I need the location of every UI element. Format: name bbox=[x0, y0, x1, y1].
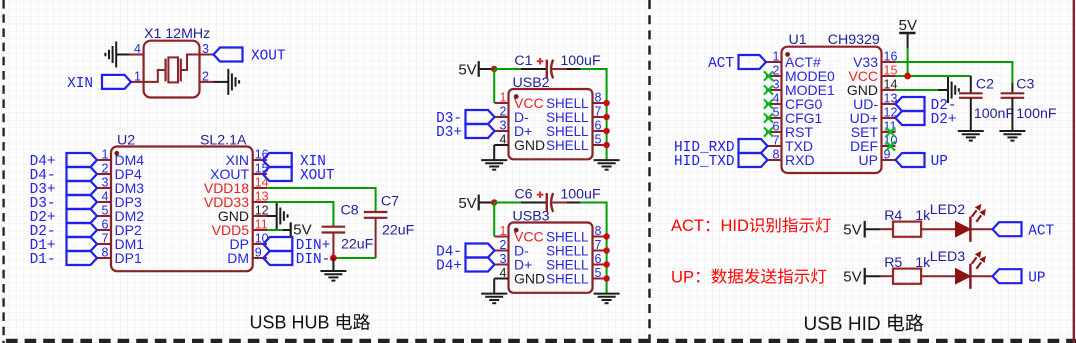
U2 pin 12 GND bbox=[253, 215, 267, 217]
svg-text:8: 8 bbox=[595, 90, 602, 104]
U1 pin 16 V33 bbox=[882, 61, 896, 63]
port ACT at LED2 bbox=[993, 222, 1022, 236]
svg-text:5: 5 bbox=[773, 105, 780, 119]
no-connect X at U1 pin 11 bbox=[886, 127, 895, 136]
wire R5 to LED3 bbox=[921, 275, 955, 277]
U2 pin 9 DM bbox=[253, 257, 267, 259]
svg-text:3: 3 bbox=[102, 175, 109, 189]
port D2- bbox=[896, 97, 925, 111]
port D1- bbox=[67, 251, 98, 265]
svg-text:GND: GND bbox=[514, 271, 545, 287]
no-connect X at U1 pin 4 bbox=[764, 99, 773, 108]
svg-text:SHELL: SHELL bbox=[546, 257, 588, 272]
U2 pin 4 DP3 bbox=[97, 201, 111, 203]
svg-text:HID: HID bbox=[721, 217, 750, 235]
port D3- bbox=[67, 195, 98, 209]
ground below C3 bbox=[999, 130, 1025, 132]
port D4- bbox=[466, 244, 495, 258]
port D3+ bbox=[466, 124, 495, 138]
capacitor C2 bbox=[959, 92, 983, 94]
U1 pin 2 MODE0 bbox=[766, 75, 782, 77]
sheet divider dashed bottom bbox=[6, 339, 1076, 343]
U1 pin 5 CFG1 bbox=[766, 117, 782, 119]
U2 pin 10 DP bbox=[253, 243, 267, 245]
X1 pin 1 bbox=[131, 81, 144, 83]
svg-text:1: 1 bbox=[500, 90, 507, 104]
svg-text:8: 8 bbox=[102, 245, 109, 259]
port D2+ bbox=[896, 111, 925, 125]
capacitor C7 bbox=[375, 218, 377, 258]
svg-text:R4: R4 bbox=[884, 208, 902, 224]
svg-text:5V: 5V bbox=[843, 269, 861, 286]
USB2 pin-1 dot bbox=[514, 94, 519, 99]
svg-text:4: 4 bbox=[773, 91, 780, 105]
USB3 pin 7 SHELL bbox=[593, 250, 607, 252]
no-connect X at U1 pin 10 bbox=[886, 141, 895, 150]
junction VCC 5V bbox=[904, 73, 911, 80]
svg-text:USB3: USB3 bbox=[513, 209, 550, 225]
svg-text:SHELL: SHELL bbox=[546, 110, 588, 125]
X1 pin 4 bbox=[130, 54, 144, 56]
svg-text:7: 7 bbox=[595, 104, 602, 118]
svg-text:2: 2 bbox=[202, 69, 209, 83]
svg-text:6: 6 bbox=[773, 119, 780, 133]
svg-text:D1-: D1- bbox=[30, 252, 56, 268]
svg-text:ACT: ACT bbox=[708, 56, 734, 72]
svg-text:SHELL: SHELL bbox=[546, 243, 588, 258]
U1 pin 12 UD+ bbox=[882, 117, 896, 119]
svg-text:USB HUB: USB HUB bbox=[250, 313, 330, 333]
ground at USB3 shell bbox=[594, 293, 620, 295]
ground at X1 pin 2 bbox=[214, 81, 229, 83]
U1 pin 15 VCC bbox=[882, 75, 896, 77]
svg-text:5V: 5V bbox=[293, 222, 311, 239]
LED LED3 bbox=[956, 269, 971, 284]
U2 pin 8 DP1 bbox=[97, 257, 111, 259]
svg-text:C1: C1 bbox=[514, 53, 532, 69]
capacitor C1 bbox=[521, 68, 547, 70]
svg-text:4: 4 bbox=[102, 189, 109, 203]
svg-text:10: 10 bbox=[255, 231, 269, 245]
USB2 pin 4 GND bbox=[494, 144, 508, 146]
ground below cap rail bbox=[332, 258, 334, 271]
port HID_RXD bbox=[739, 139, 768, 153]
USB2 pin 1 VCC bbox=[495, 102, 509, 104]
svg-text:XOUT: XOUT bbox=[300, 168, 335, 184]
junction SHELL 7 USB2 bbox=[603, 114, 609, 120]
sheet divider dashed middle bbox=[648, 0, 651, 343]
svg-text:14: 14 bbox=[884, 77, 898, 91]
USB2 pin 6 SHELL bbox=[593, 130, 607, 132]
port XIN at crystal bbox=[102, 75, 131, 89]
svg-text:1: 1 bbox=[773, 49, 780, 63]
junction 5V USB3 bbox=[491, 199, 497, 205]
svg-text:5V: 5V bbox=[843, 222, 861, 239]
port D3+ bbox=[67, 181, 98, 195]
power 5V at U2 pin 11 bbox=[267, 229, 283, 231]
junction SHELL 5 USB3 bbox=[603, 275, 609, 281]
port D1+ bbox=[67, 237, 98, 251]
port XOUT at crystal bbox=[214, 48, 243, 62]
junction SHELL 5 USB2 bbox=[603, 142, 609, 148]
svg-text:100nF: 100nF bbox=[1016, 106, 1057, 122]
svg-text:5V: 5V bbox=[458, 62, 476, 79]
port UP at LED3 bbox=[993, 269, 1022, 283]
svg-text:7: 7 bbox=[102, 231, 109, 245]
USB3 pin 1 VCC bbox=[495, 236, 509, 238]
svg-text:6: 6 bbox=[102, 217, 109, 231]
USB2 pin 8 SHELL bbox=[593, 102, 607, 104]
port D2- bbox=[67, 223, 98, 237]
crystal X1 internal symbol bbox=[144, 70, 165, 82]
svg-text:GND: GND bbox=[514, 137, 545, 153]
junction SHELL 6 USB3 bbox=[603, 261, 609, 267]
port XOUT at U2 bbox=[263, 167, 292, 181]
junction at DIN- rail bbox=[330, 255, 337, 262]
USB2 pin 5 SHELL bbox=[593, 144, 607, 146]
U2 pin 13 VDD33 bbox=[253, 201, 267, 203]
svg-text:D2+: D2+ bbox=[931, 112, 957, 128]
ground at USB3 pin 4 bbox=[493, 279, 495, 294]
svg-text:6: 6 bbox=[595, 118, 602, 132]
svg-text:5V: 5V bbox=[458, 195, 476, 212]
USB connector USB2 body bbox=[509, 89, 593, 159]
svg-text:3: 3 bbox=[202, 42, 209, 56]
wire GND pin14 bbox=[896, 89, 939, 91]
junction SHELL 8 USB3 bbox=[603, 233, 609, 239]
U2 pin 15 XOUT bbox=[253, 173, 267, 175]
sheet divider dashed left bbox=[2, 0, 4, 343]
svg-text:X1 12MHz: X1 12MHz bbox=[144, 26, 210, 42]
svg-text:6: 6 bbox=[595, 252, 602, 266]
svg-text:USB HID: USB HID bbox=[804, 314, 881, 335]
svg-text:C6: C6 bbox=[514, 187, 532, 203]
svg-text:5: 5 bbox=[595, 266, 602, 280]
capacitor C8 bbox=[332, 233, 334, 259]
svg-text:UP: UP bbox=[1028, 270, 1045, 286]
svg-text:5: 5 bbox=[102, 203, 109, 217]
svg-text:5V: 5V bbox=[899, 17, 917, 34]
C3 top lead bbox=[1011, 83, 1013, 93]
junction SHELL 8 USB2 bbox=[603, 100, 609, 106]
U2 pin 3 DM3 bbox=[97, 187, 111, 189]
svg-text:C8: C8 bbox=[341, 203, 359, 219]
USB connector USB3 body bbox=[509, 223, 593, 293]
port D4- bbox=[67, 167, 98, 181]
port DIN+ bbox=[263, 237, 292, 251]
svg-text:22uF: 22uF bbox=[341, 236, 374, 252]
svg-text:UP: UP bbox=[671, 267, 694, 286]
port DIN- bbox=[263, 251, 292, 265]
svg-text:ACT: ACT bbox=[1028, 223, 1054, 239]
U1 pin 3 MODE1 bbox=[766, 89, 782, 91]
U1 pin 1 ACT# bbox=[766, 61, 782, 63]
wire 5V to R4 bbox=[881, 228, 893, 230]
no-connect X at U1 pin 6 bbox=[764, 127, 773, 136]
USB3 pin 6 SHELL bbox=[593, 264, 607, 266]
wire R4 to LED2 bbox=[921, 228, 955, 230]
sheet border right red bbox=[1073, 0, 1075, 343]
svg-text:2: 2 bbox=[102, 161, 109, 175]
junction 5V USB2 bbox=[491, 66, 497, 72]
USB3 pin 8 SHELL bbox=[593, 236, 607, 238]
U1 pin 6 RST bbox=[766, 131, 782, 133]
svg-text:4: 4 bbox=[500, 266, 507, 280]
svg-text:15: 15 bbox=[884, 63, 898, 77]
U2 pin 14 VDD18 bbox=[253, 187, 267, 189]
svg-text:XOUT: XOUT bbox=[251, 49, 286, 65]
ground at USB2 pin 4 bbox=[493, 145, 495, 160]
U1 pin 13 UD- bbox=[882, 103, 896, 105]
port D4+ bbox=[466, 258, 495, 272]
svg-text:13: 13 bbox=[255, 189, 269, 203]
wire C1 to shell rail bbox=[494, 68, 521, 70]
U1 pin 14 GND bbox=[882, 89, 896, 91]
svg-text:DP1: DP1 bbox=[115, 250, 142, 266]
svg-text:SHELL: SHELL bbox=[546, 124, 588, 139]
U2 pin 7 DM1 bbox=[97, 243, 111, 245]
svg-text:XIN: XIN bbox=[67, 76, 93, 92]
wire shell rail USB3 bbox=[581, 203, 607, 294]
no-connect X at U1 pin 2 bbox=[764, 71, 773, 80]
svg-text:12: 12 bbox=[255, 203, 269, 217]
svg-text:2: 2 bbox=[773, 63, 780, 77]
U1 pin-1 dot bbox=[785, 52, 790, 57]
svg-text:4: 4 bbox=[134, 42, 141, 56]
USB3 pin-1 dot bbox=[514, 228, 519, 233]
no-connect X at U1 pin 5 bbox=[764, 113, 773, 122]
svg-text:ACT: ACT bbox=[671, 217, 704, 235]
svg-text:U2: U2 bbox=[117, 132, 135, 148]
U2 pin 6 DP2 bbox=[97, 229, 111, 231]
svg-text:CH9329: CH9329 bbox=[828, 32, 880, 48]
svg-text:1: 1 bbox=[134, 69, 141, 83]
svg-text:7: 7 bbox=[595, 238, 602, 252]
svg-text:USB2: USB2 bbox=[513, 75, 550, 91]
svg-text:100uF: 100uF bbox=[560, 53, 601, 69]
U1 pin 10 DEF bbox=[882, 145, 896, 147]
ground at U2 pin 12 bbox=[267, 215, 277, 217]
USB3 pin 5 SHELL bbox=[593, 278, 607, 280]
wire VCC rail bbox=[896, 75, 971, 77]
ground at U1 pin 14 bbox=[938, 89, 948, 91]
svg-text:SHELL: SHELL bbox=[546, 96, 588, 111]
U2 pin 5 DM2 bbox=[97, 215, 111, 217]
svg-text:LED2: LED2 bbox=[930, 202, 966, 218]
svg-text:3: 3 bbox=[773, 77, 780, 91]
junction SHELL 7 USB3 bbox=[603, 247, 609, 253]
svg-text:4: 4 bbox=[500, 132, 507, 146]
U1 pin 8 RXD bbox=[766, 159, 782, 161]
IC U1 body bbox=[782, 47, 882, 173]
USB3 pin 2 D- bbox=[495, 250, 509, 252]
svg-text:9: 9 bbox=[255, 245, 262, 259]
wire LED2 to port ACT bbox=[970, 228, 992, 230]
svg-text:C3: C3 bbox=[1016, 76, 1034, 92]
port D2+ bbox=[67, 209, 98, 223]
port UP at U1 bbox=[896, 153, 925, 167]
C2 top lead bbox=[970, 76, 972, 93]
LED LED2 bbox=[956, 222, 971, 237]
U1 pin 7 TXD bbox=[766, 145, 782, 147]
wire 5V to R5 bbox=[881, 275, 893, 277]
svg-text:2: 2 bbox=[500, 238, 507, 252]
U2 pin 1 DM4 bbox=[97, 159, 111, 161]
power 5V at U1 bbox=[899, 32, 915, 34]
svg-text:HID_TXD: HID_TXD bbox=[674, 154, 734, 170]
svg-text:DIN-: DIN- bbox=[296, 252, 331, 268]
U2 pin 11 VDD5 bbox=[253, 229, 267, 231]
port D3- bbox=[466, 110, 495, 124]
U2 pin 2 DP4 bbox=[97, 173, 111, 175]
svg-text:DM: DM bbox=[227, 250, 249, 266]
wire 5V down to USB3 VCC bbox=[493, 203, 495, 237]
svg-text:RXD: RXD bbox=[785, 152, 815, 168]
ground at X1 pin 4 bbox=[116, 54, 129, 56]
ground below C2 bbox=[958, 130, 984, 132]
X1 pin 3 bbox=[200, 54, 214, 56]
svg-text:5: 5 bbox=[595, 132, 602, 146]
svg-text:7: 7 bbox=[773, 133, 780, 147]
svg-text:SHELL: SHELL bbox=[546, 229, 588, 244]
wire VDD18 to C7 bbox=[267, 188, 376, 212]
U1 pin 11 SET bbox=[882, 131, 896, 133]
svg-text:R5: R5 bbox=[884, 255, 902, 271]
wire shell rail USB2 bbox=[581, 69, 607, 160]
svg-text:D3+: D3+ bbox=[436, 125, 462, 141]
wire 5V down to USB2 VCC bbox=[493, 69, 495, 103]
svg-text:LED3: LED3 bbox=[930, 249, 966, 265]
USB3 pin 3 D+ bbox=[495, 264, 509, 266]
IC U2 body bbox=[111, 147, 253, 272]
svg-text:100nF: 100nF bbox=[974, 106, 1015, 122]
svg-text:1: 1 bbox=[500, 224, 507, 238]
no-connect X at U1 pin 3 bbox=[764, 85, 773, 94]
svg-text:22uF: 22uF bbox=[382, 222, 415, 238]
svg-text:100uF: 100uF bbox=[560, 187, 601, 203]
svg-text:SHELL: SHELL bbox=[546, 271, 588, 286]
U1 pin 4 CFG0 bbox=[766, 103, 782, 105]
svg-text:SL2.1A: SL2.1A bbox=[200, 132, 247, 148]
capacitor C6 bbox=[521, 202, 547, 204]
wire LED3 to port UP bbox=[970, 275, 992, 277]
USB3 pin 4 GND bbox=[494, 278, 508, 280]
svg-text:SHELL: SHELL bbox=[546, 138, 588, 153]
wire C6 to shell rail bbox=[494, 202, 521, 204]
port XIN at U2 bbox=[263, 153, 292, 167]
resistor R4 1k bbox=[893, 222, 921, 237]
X1 pin 2 bbox=[200, 81, 214, 83]
svg-text:C2: C2 bbox=[976, 76, 994, 92]
svg-text:U1: U1 bbox=[789, 32, 807, 48]
port D4+ bbox=[67, 153, 98, 167]
svg-text:UP: UP bbox=[859, 152, 878, 168]
USB2 pin 3 D+ bbox=[495, 130, 509, 132]
svg-text:8: 8 bbox=[595, 224, 602, 238]
wire V33 to C3 bbox=[896, 62, 1013, 83]
svg-text:2: 2 bbox=[500, 104, 507, 118]
port ACT at U1 bbox=[739, 55, 767, 69]
ground at USB2 shell bbox=[594, 159, 620, 161]
svg-text:3: 3 bbox=[500, 252, 507, 266]
U2 pin 16 XIN bbox=[253, 159, 267, 161]
svg-text:C7: C7 bbox=[381, 194, 399, 210]
wire VDD33 to C8 bbox=[267, 202, 333, 227]
svg-text:D4+: D4+ bbox=[436, 259, 462, 275]
crystal X1 body bbox=[144, 41, 200, 98]
junction SHELL 6 USB2 bbox=[603, 128, 609, 134]
svg-text:11: 11 bbox=[255, 217, 268, 231]
USB2 pin 2 D- bbox=[495, 116, 509, 118]
capacitor C3 bbox=[1001, 92, 1025, 94]
port HID_TXD bbox=[739, 153, 768, 167]
U1 pin 9 UP bbox=[882, 159, 896, 161]
svg-text:16: 16 bbox=[884, 49, 898, 63]
wire cap bottom rail bbox=[333, 257, 375, 259]
svg-text:1: 1 bbox=[102, 147, 109, 161]
U2 pin-1 dot bbox=[114, 151, 119, 156]
svg-text:8: 8 bbox=[773, 147, 780, 161]
svg-text:3: 3 bbox=[500, 118, 507, 132]
svg-text:UP: UP bbox=[931, 154, 948, 170]
USB2 pin 7 SHELL bbox=[593, 116, 607, 118]
resistor R5 1k bbox=[893, 269, 921, 284]
